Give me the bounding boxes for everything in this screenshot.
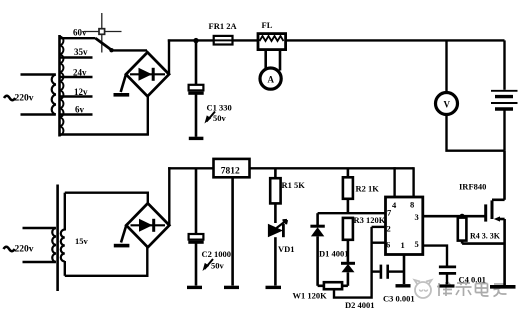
tap 35v wire	[60, 56, 93, 58]
pin 6 lead	[372, 241, 386, 243]
LED VD1	[266, 220, 295, 287]
resistor R3	[343, 215, 386, 263]
svg-text:8: 8	[410, 200, 414, 210]
transformer T1 core	[58, 35, 61, 137]
svg-text:C3 0.001: C3 0.001	[383, 294, 415, 304]
MOSFET IRF840 Q1	[459, 182, 505, 287]
pin 2 lead	[372, 226, 386, 228]
T2 secondary lead line	[64, 193, 66, 231]
svg-text:60v: 60v	[73, 28, 87, 38]
wire switch to bridge	[111, 49, 147, 51]
svg-text:R3 120K: R3 120K	[354, 215, 386, 225]
capacitor C4	[439, 267, 486, 286]
svg-text:FR1 2A: FR1 2A	[209, 21, 238, 31]
pin 5 lead to C4	[423, 246, 447, 266]
svg-text:12v: 12v	[74, 87, 88, 97]
regulator 7812	[214, 159, 250, 177]
svg-text:C1 330: C1 330	[207, 103, 232, 113]
transformer T2 core	[56, 185, 59, 292]
node R4/gate junction	[460, 214, 465, 219]
svg-text:15v: 15v	[75, 236, 89, 246]
svg-text:D1 4001: D1 4001	[319, 249, 349, 259]
watermark text	[437, 282, 507, 297]
svg-text:24v: 24v	[73, 68, 87, 78]
transformer T2 primary winding	[52, 228, 56, 262]
transformer T1 primary winding	[52, 75, 56, 115]
svg-text:C2 1000: C2 1000	[202, 249, 232, 259]
T1 primary lead bottom	[21, 113, 56, 116]
selector switch arm	[96, 38, 113, 50]
wire voltmeter bottom	[447, 115, 505, 151]
node C1/bus junction	[193, 38, 198, 43]
bridge rectifier B1	[126, 52, 169, 96]
12V rail	[168, 167, 414, 169]
diode D1 branch wire	[316, 213, 319, 226]
voltmeter V	[436, 93, 458, 115]
svg-text:VD1: VD1	[278, 244, 295, 254]
node wire R2/R3/pin7	[318, 212, 386, 214]
tap 24v wire	[60, 76, 93, 78]
T2 secondary top wire	[65, 193, 148, 204]
svg-text:IRF840: IRF840	[459, 182, 486, 192]
wire battery return to drain	[503, 151, 506, 200]
svg-text:R2 1K: R2 1K	[356, 184, 380, 194]
tap 6v wire	[60, 113, 93, 115]
pin 1 lead to ground	[403, 255, 406, 285]
top bus wire	[168, 39, 505, 41]
wire R4 bottom to source	[462, 242, 505, 245]
resistor R2	[343, 168, 379, 214]
watermark logo	[415, 280, 432, 298]
diode D1	[310, 226, 348, 286]
resistor R4	[458, 218, 501, 244]
diode D2	[341, 263, 375, 310]
svg-text:50v: 50v	[213, 113, 227, 123]
svg-text:3: 3	[415, 212, 419, 222]
bridge rectifier B2	[126, 203, 169, 247]
svg-text:35v: 35v	[74, 47, 88, 57]
FL to ammeter wires	[264, 50, 267, 71]
tap 60v wire	[60, 37, 96, 39]
7812 ground pin wire	[231, 177, 234, 285]
svg-text:C4 0.01: C4 0.01	[459, 275, 486, 285]
svg-text:6v: 6v	[75, 105, 85, 115]
svg-text:FL: FL	[262, 20, 273, 30]
label ~220v (bottom transformer)	[4, 247, 15, 252]
pin 8 riser	[412, 167, 414, 197]
555 timer IC U1	[386, 197, 423, 255]
svg-text:2: 2	[387, 224, 391, 234]
B1 internal diode	[130, 68, 165, 81]
svg-text:R4 3. 3K: R4 3. 3K	[470, 232, 501, 241]
wiper wire to pin2/6	[334, 227, 372, 298]
wire B2 right vertex to 12V rail	[168, 167, 170, 225]
svg-text:1: 1	[401, 240, 405, 250]
MOSFET source ground bar	[490, 285, 516, 289]
capacitor C2	[187, 168, 231, 287]
transformer T2 secondary winding	[61, 230, 65, 262]
B2 internal diode	[131, 219, 166, 232]
pin 4 riser	[393, 167, 395, 197]
ammeter A	[260, 68, 281, 89]
svg-text:A: A	[268, 75, 275, 85]
svg-text:5: 5	[415, 239, 419, 249]
shunt FL	[258, 20, 286, 50]
svg-text:D2 4001: D2 4001	[345, 300, 375, 310]
wire B1 bottom vertex down	[147, 96, 149, 135]
potentiometer W1	[293, 282, 348, 300]
T1 bottom tap wire	[60, 133, 149, 135]
pin 3 lead to gate	[423, 215, 485, 218]
svg-text:7812: 7812	[221, 167, 240, 177]
voltmeter branch wire	[445, 40, 447, 93]
svg-text:220v: 220v	[15, 245, 34, 255]
T2 primary lead top	[23, 227, 56, 230]
ground stub B1	[121, 74, 126, 92]
svg-text:W1 120K: W1 120K	[293, 291, 328, 301]
capacitor C1	[188, 40, 231, 138]
svg-text:6: 6	[386, 240, 390, 250]
transformer T1 secondary winding	[60, 36, 64, 135]
resistor R1	[270, 168, 305, 223]
battery	[491, 40, 518, 150]
tap 12v wire	[60, 95, 93, 97]
fuse FR1	[209, 21, 238, 45]
svg-text:50v: 50v	[211, 261, 225, 271]
T1 primary lead top	[21, 73, 56, 76]
cursor crosshair	[84, 13, 122, 53]
T2 primary lead bottom	[23, 261, 56, 264]
svg-text:220v: 220v	[15, 94, 34, 104]
ground stub B2	[121, 225, 126, 242]
wire B1 right vertex to top bus	[168, 39, 170, 74]
svg-text:V: V	[444, 100, 451, 110]
T2 secondary bottom wire	[65, 248, 148, 276]
svg-text:R1 5K: R1 5K	[282, 180, 306, 190]
label ~220v (top transformer)	[4, 96, 15, 101]
capacitor C3	[372, 265, 415, 304]
